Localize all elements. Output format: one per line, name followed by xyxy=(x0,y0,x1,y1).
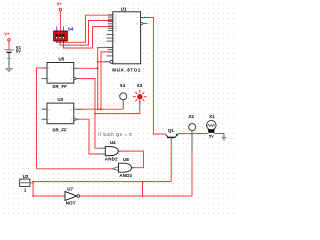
svg-text:U7: U7 xyxy=(67,187,73,192)
svg-text:X1: X1 xyxy=(209,114,215,119)
svg-text:SR_FF: SR_FF xyxy=(52,128,67,133)
svg-text:5V: 5V xyxy=(16,49,21,54)
svg-text:D7: D7 xyxy=(114,30,116,32)
svg-text:if both Qs = 0: if both Qs = 0 xyxy=(98,132,132,137)
svg-text:U8: U8 xyxy=(123,157,129,162)
svg-text:Q1: Q1 xyxy=(168,128,175,133)
svg-text:V+: V+ xyxy=(4,31,10,36)
svg-text:5V: 5V xyxy=(209,133,214,138)
svg-text:X4: X4 xyxy=(120,83,126,88)
svg-text:NOT: NOT xyxy=(66,201,76,206)
svg-text:W: W xyxy=(136,23,138,25)
svg-text:U3: U3 xyxy=(57,97,63,102)
svg-text:MUX_8TO1: MUX_8TO1 xyxy=(112,68,141,73)
svg-text:U1: U1 xyxy=(121,7,127,12)
svg-text:X2: X2 xyxy=(188,114,194,119)
svg-text:U4: U4 xyxy=(110,140,116,145)
svg-text:AND2: AND2 xyxy=(105,157,118,162)
svg-text:S4: S4 xyxy=(68,27,74,32)
svg-text:AND2: AND2 xyxy=(119,173,132,178)
svg-text:U2: U2 xyxy=(23,174,29,179)
svg-text:V+: V+ xyxy=(57,2,63,7)
svg-text:SR_FF: SR_FF xyxy=(52,84,67,89)
svg-text:U5: U5 xyxy=(59,56,65,61)
svg-text:X3: X3 xyxy=(137,83,143,88)
